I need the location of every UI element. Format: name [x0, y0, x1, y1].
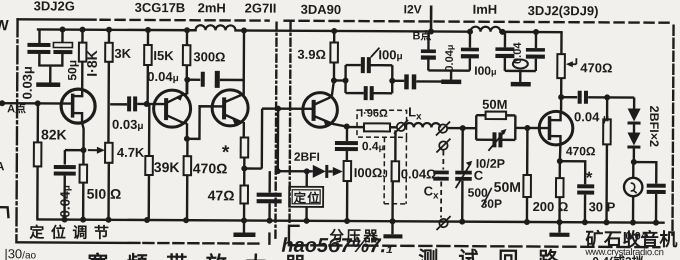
wire to Q5 gate: [515, 127, 549, 130]
wire 470 top: [186, 139, 188, 156]
svg-text:0.04: 0.04: [625, 230, 647, 242]
node rail 3.9: [331, 28, 337, 34]
svg-text:hao5б7%7.₁: hao5б7%7.₁: [281, 235, 393, 258]
dingwei box lead bottom: [305, 207, 307, 221]
resistor 39K: [145, 156, 153, 175]
svg-text:I2V: I2V: [404, 2, 422, 16]
wire 0.4u to 100ohm: [346, 151, 348, 161]
node gate 50M2: [524, 125, 530, 131]
wire 3.9 top: [333, 31, 335, 42]
outer box top border right (dashed): [285, 21, 670, 23]
node rail 510: [80, 217, 86, 223]
capacitor 50u: [53, 42, 72, 54]
Q3 base bar: [222, 97, 226, 119]
resistor 1.8K: [79, 43, 87, 62]
wire 0.03u to Q2 base: [137, 103, 166, 106]
svg-text:30 P: 30 P: [589, 199, 616, 214]
node bridge top: [275, 106, 281, 112]
resistor 47ohm: [240, 185, 248, 203]
resistor 0.04ohm: [392, 161, 400, 181]
node rail 100ohm: [344, 218, 350, 224]
meter (microammeter): [624, 178, 642, 196]
wire cap C bottom: [504, 58, 506, 71]
inductor Lx: [405, 123, 440, 128]
node base Q2: [144, 101, 150, 107]
potentiometer 100ohm: [344, 161, 352, 181]
wire Q2 collector to Q3 base: [187, 106, 224, 139]
node rail 1mH-left: [467, 29, 473, 35]
tank loop left vertical: [344, 65, 347, 93]
node rail 0.04ohm: [390, 218, 396, 224]
wire between diodes: [633, 124, 635, 133]
ground (main, below 47ohm): [243, 220, 245, 232]
svg-text:0.04μ: 0.04μ: [444, 45, 456, 72]
capacitor 0.04u (Q2) lead right: [220, 79, 244, 82]
diode 2BF1 x2 (second): [627, 133, 640, 146]
svg-text:定位: 定位: [293, 190, 321, 205]
Q2 base bar: [164, 98, 168, 120]
wire C top: [461, 128, 464, 170]
12V supply line: [430, 5, 433, 31]
node rail 0.04u: [62, 217, 68, 223]
svg-text:300Ω: 300Ω: [193, 49, 225, 64]
node rail cap 100u: [533, 29, 539, 35]
svg-text:*: *: [222, 142, 230, 163]
node rail 1mH-right: [500, 29, 506, 35]
transistor Q1 3DJ2G (JFET): [61, 89, 95, 123]
resistor 15K: [144, 45, 152, 65]
node Q5 source: [557, 158, 563, 164]
svg-text:定位调节: 定位调节: [29, 223, 115, 241]
transistor Q4 3DA90: [303, 93, 338, 128]
Q4 base bar: [312, 100, 316, 121]
wire diode to node: [633, 148, 635, 162]
bus B caps: [428, 69, 469, 72]
wire cap bottom: [268, 203, 270, 220]
wire 3K bottom to 4.7K: [107, 62, 110, 143]
capacitor 30P* plates: [577, 184, 594, 194]
node rail 470-2: [604, 219, 610, 225]
svg-text:I5K: I5K: [153, 48, 174, 63]
wire 47 top: [243, 168, 245, 185]
inductor 1mH: [471, 27, 501, 32]
wire 82K bottom: [36, 166, 39, 219]
wire cap to 470-2 node: [588, 96, 634, 99]
resistor 3K: [105, 43, 113, 62]
Q2 collector (down): [166, 115, 187, 139]
bottom border corner stub: [268, 234, 270, 244]
node rail 47: [241, 217, 247, 223]
wire Bcap1 top: [427, 31, 429, 49]
Q5 source tap: [549, 136, 560, 144]
Q2 emitter (up): [166, 80, 187, 103]
capacitor 0.4u top lead: [346, 127, 348, 141]
svg-text:50μ: 50μ: [65, 60, 79, 81]
wire 39K bottom: [148, 175, 151, 220]
section divider dashed: [275, 23, 276, 242]
ground stem mid: [391, 221, 393, 234]
svg-text:A点: A点: [7, 101, 26, 115]
node rail meter: [630, 220, 636, 226]
outer box top border (dashed): [101, 19, 269, 22]
wire source to 200ohm: [559, 161, 561, 178]
resistor 82K: [34, 142, 42, 166]
svg-text:470Ω: 470Ω: [580, 60, 612, 75]
node Q4 emitter: [344, 124, 350, 130]
wire Bcap1 bottom: [427, 59, 429, 70]
wire collector down to Q4: [332, 80, 334, 97]
wire output cap bottom: [655, 194, 658, 223]
resistor 200ohm: [556, 178, 564, 197]
wire 470-2 top: [606, 97, 609, 119]
wire 47 bottom: [243, 203, 245, 220]
svg-text:39K: 39K: [154, 159, 180, 175]
dashed box 0.04ohm column: [384, 137, 406, 204]
node Q2 top junction: [184, 77, 190, 83]
capacitor 0.04u (Q2) lead left: [187, 78, 200, 80]
wire emitter node to 1.96: [347, 126, 364, 128]
node rail 30P: [582, 219, 588, 225]
node meter top: [631, 159, 637, 165]
node rail 1.8K: [80, 27, 86, 33]
wire Bcap2 bottom: [469, 58, 471, 70]
capacitor 100u (right): [526, 48, 545, 59]
svg-text:0.04: 0.04: [512, 42, 524, 64]
tank loop right vertical: [391, 65, 394, 93]
rail corner down: [560, 32, 563, 54]
node rail Q3: [241, 27, 247, 33]
wire H-cap to ground bus: [416, 80, 451, 83]
potentiometer 470ohm (top): [557, 54, 565, 78]
wire drain node to Q5: [560, 97, 562, 112]
wire 1.8K top: [81, 30, 83, 43]
svg-text:I·8K: I·8K: [84, 50, 100, 77]
bus right caps: [505, 70, 536, 73]
outer box left border: [16, 19, 17, 242]
wire cap B top: [535, 32, 537, 48]
svg-text:3K: 3K: [114, 46, 131, 61]
capacitor C arrow: [456, 163, 471, 188]
Q3 collector (up): [224, 30, 244, 102]
wire 470 to drain node: [560, 78, 562, 97]
wire cap B bottom: [535, 59, 537, 71]
wire res to node: [243, 157, 245, 168]
svg-text:4.7K: 4.7K: [117, 145, 145, 160]
resistor 1.96ohm (horizontal): [364, 123, 390, 131]
diode chain wire top: [633, 98, 635, 109]
plug symbol on rail (Cx): [439, 219, 447, 227]
node rail dingwei: [304, 218, 310, 224]
capacitor output plates: [647, 184, 666, 194]
svg-text:2G7II: 2G7II: [245, 0, 277, 15]
outer box bottom border (dashed): [143, 242, 263, 245]
capacitor 0.04u (B1): [421, 49, 436, 59]
node rail C: [459, 219, 465, 225]
Q5 gate bar: [548, 116, 552, 140]
wire y171.5 run: [278, 170, 313, 173]
wire 15K top: [147, 30, 149, 45]
svg-text:测试回路: 测试回路: [418, 246, 578, 260]
svg-text:0.4μ: 0.4μ: [362, 139, 384, 153]
node Q2 collector: [184, 136, 190, 142]
4.7K wiper arrow: [88, 149, 99, 151]
bottom branch wires: [476, 139, 515, 142]
ground (B caps): [441, 80, 461, 85]
meter lead: [632, 162, 634, 178]
divider-2 bottom corner: [289, 226, 299, 246]
capacitor (vertical plates, tank right): [404, 74, 416, 89]
outer box top border (solid part): [18, 18, 96, 21]
svg-text:2mH: 2mH: [198, 0, 226, 15]
box dingwei: [289, 187, 323, 207]
wire 3.9 bottom: [333, 62, 335, 80]
svg-text:47Ω: 47Ω: [208, 187, 235, 203]
wire stub to 0.04u cap: [65, 150, 84, 165]
wire 4.7K bottom: [107, 163, 110, 220]
node Q1 source: [80, 147, 86, 153]
ground (right caps): [511, 82, 531, 87]
ground stem B: [450, 71, 452, 80]
ground (mid): [383, 234, 402, 238]
diode 2BF1: [313, 165, 326, 178]
node A junction dot: [35, 100, 41, 106]
Q1 drain tap: [73, 90, 83, 97]
capacitor plates x270: [257, 193, 282, 204]
left vertical of parallel pair: [475, 115, 478, 139]
capacitor C (variable) plates: [455, 171, 472, 181]
top supply rail: [38, 29, 561, 32]
svg-text:ImH: ImH: [473, 2, 498, 17]
tank bottom branch wire: [345, 92, 392, 95]
wire emitter node to bridge: [244, 109, 313, 169]
capacitor 0.04 (under 1mH): [495, 47, 514, 58]
capacitor 0.03u coupling tap: [110, 103, 127, 105]
Q1 gate bar: [71, 94, 75, 118]
wire diode to arrow: [328, 170, 332, 172]
node rail 50u: [60, 27, 66, 33]
node A left edge dot: [0, 100, 5, 106]
svg-text:2BFI×2: 2BFI×2: [647, 106, 661, 147]
electrolytic blob: [513, 59, 528, 68]
wire 30P bottom: [584, 195, 587, 223]
right vertical of parallel pair: [514, 115, 517, 139]
transistor Q3 2G711: [212, 90, 248, 126]
wire source to 30P cap: [560, 161, 586, 184]
node rail 3K: [106, 27, 112, 33]
svg-text:www.crystalradio.cn: www.crystalradio.cn: [584, 247, 663, 258]
svg-text:50M: 50M: [482, 97, 507, 112]
capacitor 0.04 (output coupling) plates: [578, 91, 588, 104]
wire 50M2 top: [526, 128, 529, 175]
diode 2BF1 x2 (first): [628, 109, 641, 122]
svg-text:50M: 50M: [494, 179, 521, 195]
dashed box 1.96: [357, 110, 407, 137]
node Q3 emitter: [241, 165, 247, 171]
capacitor 100u top (plates): [361, 57, 371, 73]
node wire C tap: [460, 125, 466, 131]
node rail output cap: [653, 220, 659, 226]
wire Q1 source down: [82, 123, 84, 165]
svg-text:A: A: [0, 159, 5, 173]
bottom ground rail: [38, 219, 664, 222]
ground (right section): [549, 233, 569, 237]
outer box right border: [672, 26, 673, 235]
svg-text:I00μ: I00μ: [474, 64, 496, 78]
wire cap 0.03u top lead: [38, 29, 40, 43]
capacitor Cx plates: [433, 170, 449, 180]
ground stem right: [519, 71, 521, 82]
trimmer arrow: [488, 131, 505, 151]
dashed lead Cx lower: [440, 182, 442, 218]
tank top branch wire: [346, 64, 393, 67]
wire 50u top lead: [61, 30, 63, 43]
capacitor (coupling, x270) top lead: [268, 171, 271, 192]
wire tank to H-cap: [392, 80, 404, 82]
resistor 50M (vertical): [523, 175, 531, 197]
Q4 collector diag: [314, 97, 331, 105]
svg-text:B点: B点: [412, 28, 431, 42]
svg-text:I0/2P: I0/2P: [476, 157, 505, 171]
ground stem right section: [558, 222, 560, 232]
wire 15K bottom to base node: [146, 65, 149, 104]
wire 0.04u bottom: [63, 176, 66, 220]
svg-text:W: W: [0, 17, 10, 34]
inductor 2mH: [196, 25, 236, 30]
plug symbol (after Lx): [439, 124, 447, 132]
100u label tick: [371, 48, 380, 58]
transistor Q5 3DJ2 (JFET): [539, 111, 573, 145]
Q1 gate wire / node A input: [0, 102, 72, 105]
Q1 source tap: [73, 113, 83, 123]
wire 300ohm bottom to Q2 top: [185, 65, 188, 94]
capacitor 0.04u (Q2) plates: [201, 71, 220, 88]
wire 1.96 to plug: [390, 126, 397, 128]
svg-text:0.04Ω.: 0.04Ω.: [401, 166, 440, 181]
potentiometer 4.7K: [105, 143, 113, 163]
svg-text:3DJ2G: 3DJ2G: [34, 0, 75, 14]
Q4 emitter arrow: [324, 121, 332, 128]
svg-text:470Ω: 470Ω: [566, 144, 596, 158]
wire C bottom: [461, 181, 464, 222]
wire 1.8K bottom to Q1 drain: [81, 62, 84, 90]
meter lead bottom: [632, 196, 635, 222]
node Q4 collector: [331, 77, 337, 83]
node 470-2: [604, 94, 610, 100]
wire 100ohm bottom: [346, 181, 349, 221]
wire Lx to 50M node: [447, 127, 476, 130]
node rail 15K: [145, 27, 151, 33]
wire 39K top: [148, 104, 151, 156]
plug symbol (junction after 1.96): [397, 123, 405, 131]
dashed lead Cx upper: [442, 151, 444, 170]
Q3 emitter (down): [224, 114, 244, 137]
svg-text:3CG17B: 3CG17B: [135, 0, 186, 15]
capacitor 100u bottom (plates): [364, 86, 374, 100]
outer box bottom border (solid part): [17, 241, 139, 244]
svg-text:0.03μ: 0.03μ: [20, 66, 35, 99]
resistor 50M (horizontal): [486, 112, 507, 120]
wire collector node to tank: [334, 79, 346, 81]
plug symbol 2 (below): [439, 141, 447, 149]
svg-text:3DA90: 3DA90: [301, 2, 342, 17]
wire 50M2 bottom: [526, 197, 529, 222]
node rail 39K: [144, 217, 150, 223]
svg-text:200 Ω: 200 Ω: [533, 199, 569, 214]
470 top wiper arrow: [568, 63, 576, 65]
node Q5 drain: [558, 94, 564, 100]
node tank left: [343, 78, 349, 84]
arrow into 100ohm: [333, 167, 343, 176]
resistor * (Q3 emitter): [241, 137, 249, 157]
wire drain node right: [561, 96, 577, 98]
capacitor 0.04u (Q1 source bypass): [54, 165, 76, 176]
resistor 300ohm: [183, 45, 191, 65]
svg-text:3DJ2(3DJ9): 3DJ2(3DJ9): [528, 3, 599, 18]
wire 3K top: [108, 30, 110, 43]
top branch wires: [476, 114, 515, 117]
capacitor 0.03u (left electrolytic): [27, 43, 50, 54]
wire 0.04ohm bottom: [391, 181, 394, 221]
node rail cap270: [267, 218, 273, 224]
svg-text:5I0 Ω: 5I0 Ω: [87, 186, 122, 202]
wire Q5 source down: [559, 144, 562, 161]
capacitor 0.4u plates: [335, 141, 358, 151]
wire 0.04ohm top: [394, 130, 397, 161]
node tank right: [389, 78, 395, 84]
svg-text:*: *: [586, 168, 593, 187]
wire cap C top: [504, 32, 506, 47]
node bridge bottom: [275, 168, 281, 174]
wire 82K top: [37, 103, 40, 142]
node rail B: [428, 28, 434, 34]
svg-text:82K: 82K: [41, 126, 67, 142]
resistor 510ohm: [80, 165, 88, 183]
svg-text:3.9Ω: 3.9Ω: [297, 47, 326, 62]
resistor 470ohm (output load): [603, 119, 611, 144]
section divider dashed 2: [290, 23, 291, 224]
resistor 470ohm (Q2 collector load): [184, 156, 192, 175]
wire caps bottom join: [39, 54, 62, 83]
Q4 emitter diag: [314, 116, 347, 127]
wire node to output cap: [634, 162, 657, 184]
wire 300ohm top: [186, 30, 188, 45]
Q2 emitter arrow: [176, 94, 183, 101]
wire bridge second vertical: [277, 109, 280, 171]
wire 510ohm bottom: [82, 183, 85, 220]
wire 470 bottom: [186, 175, 189, 220]
node rail 50M2: [524, 219, 530, 225]
node rail 4.7K: [106, 217, 112, 223]
node rail 300ohm: [184, 27, 190, 33]
node rail 200: [557, 219, 563, 225]
wire 200 bottom: [558, 197, 561, 222]
node rail 470: [183, 217, 189, 223]
margin fragment corner: [0, 207, 9, 218]
trimmer 10/2P plates: [492, 132, 502, 147]
slash of 500/30P: [483, 188, 492, 206]
capacitor 0.03u coupling plates: [127, 96, 137, 111]
node wire dingwei: [304, 168, 310, 174]
Q3 emitter arrow: [232, 118, 240, 125]
capacitor 0.04u (B2): [461, 48, 479, 59]
bottom border of middle/right sections (dashed): [293, 245, 659, 247]
dingwei box lead top: [306, 171, 308, 186]
svg-text:I·96Ω: I·96Ω: [360, 108, 388, 120]
ground (left caps): [36, 82, 60, 87]
wire Bcap2 top: [469, 32, 471, 48]
transistor Q2 3CG17B: [154, 90, 191, 127]
wire 470-2 bottom: [605, 144, 608, 222]
